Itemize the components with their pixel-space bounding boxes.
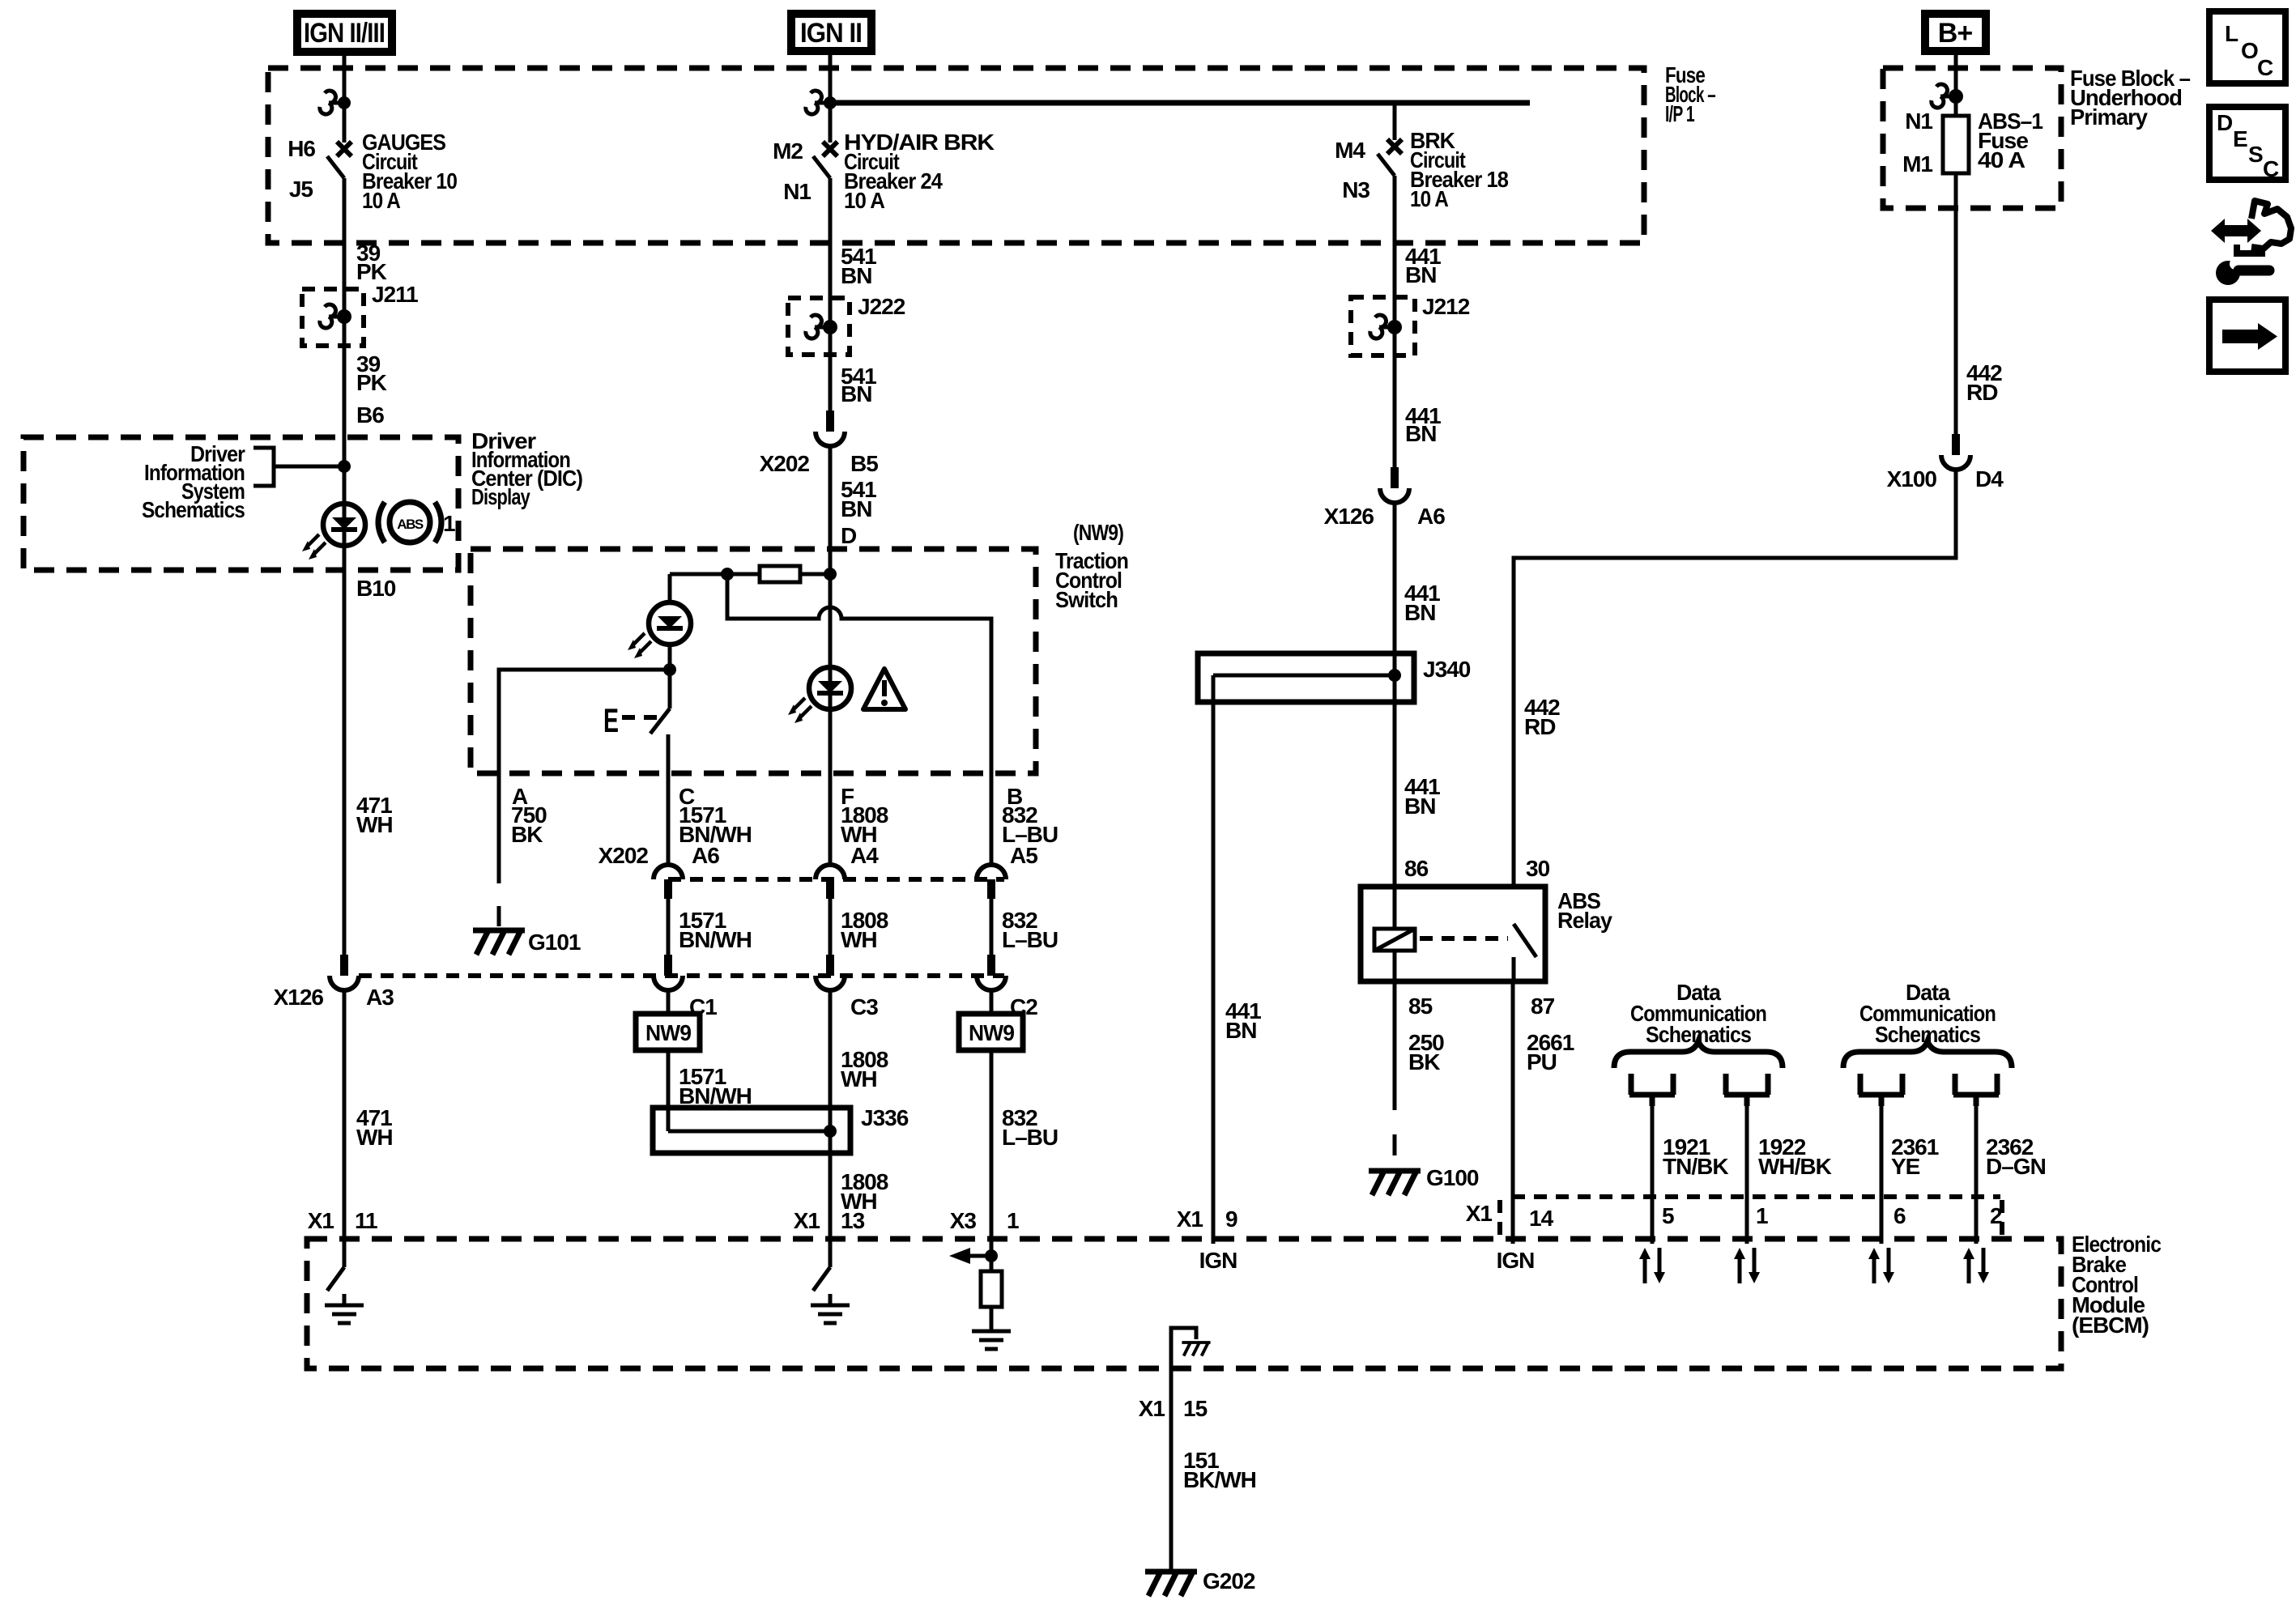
svg-text:WH: WH xyxy=(841,927,877,952)
svg-text:10 A: 10 A xyxy=(1410,186,1449,211)
svg-text:BN: BN xyxy=(1405,421,1436,446)
splice pack J336 xyxy=(653,1108,850,1153)
svg-text:L–BU: L–BU xyxy=(1002,927,1058,952)
switch to ground (EBCM X1-13) xyxy=(813,1267,830,1291)
connector X202 A4 xyxy=(816,865,845,899)
svg-text:6: 6 xyxy=(1893,1203,1906,1228)
svg-text:J211: J211 xyxy=(372,282,418,307)
svg-text:C: C xyxy=(2257,55,2273,80)
wire node to pin A xyxy=(499,670,670,773)
svg-text:85: 85 xyxy=(1408,994,1433,1019)
bus wire in fuse block xyxy=(830,100,1530,106)
relay coil xyxy=(1374,929,1415,951)
svg-text:B10: B10 xyxy=(356,576,396,601)
svg-text:N1: N1 xyxy=(1905,109,1932,134)
label (NW9) Traction Control Switch xyxy=(1055,520,1128,612)
label Fuse Block - I/P 1 xyxy=(1665,62,1715,126)
svg-text:X1: X1 xyxy=(1466,1201,1493,1226)
svg-text:I/P 1: I/P 1 xyxy=(1665,101,1694,126)
label Fuse Block - Underhood Primary xyxy=(2070,66,2190,130)
svg-text:Display: Display xyxy=(471,484,530,509)
data arrows pin 2 xyxy=(1963,1248,1989,1283)
wire fuse down to X100 xyxy=(1954,173,1958,434)
svg-text:NW9: NW9 xyxy=(969,1020,1014,1045)
svg-text:D: D xyxy=(2217,110,2233,135)
svg-text:X126: X126 xyxy=(274,985,324,1010)
svg-text:A4: A4 xyxy=(850,843,879,868)
svg-text:IGN II/III: IGN II/III xyxy=(304,18,385,49)
data arrows pin 1 xyxy=(1734,1248,1760,1283)
label Driver Information System Schematics xyxy=(142,441,245,522)
ground (EBCM internal, X1-13) xyxy=(811,1294,850,1323)
node right of resistor xyxy=(824,568,837,581)
node left of resistor xyxy=(721,568,734,581)
svg-text:X1: X1 xyxy=(1177,1206,1203,1232)
data arrows pin 5 xyxy=(1639,1248,1665,1283)
wire C1 to NW9 xyxy=(667,990,671,1014)
fuse ABS-1 40A N1/M1 xyxy=(1943,116,1969,173)
svg-text:G101: G101 xyxy=(528,930,581,955)
wire NW9 to J336 xyxy=(667,1050,671,1131)
svg-text:X126: X126 xyxy=(1324,504,1374,529)
svg-text:J340: J340 xyxy=(1423,657,1471,682)
ground G100 xyxy=(1369,1171,1421,1195)
wire A6 to J340 xyxy=(1393,503,1397,929)
circuit breaker 10 (GAUGES) H6/J5 xyxy=(327,142,351,178)
svg-text:N1: N1 xyxy=(783,179,811,204)
svg-text:D: D xyxy=(841,523,857,548)
svg-text:S: S xyxy=(2248,142,2263,167)
svg-text:10 A: 10 A xyxy=(844,188,885,213)
terminal fork pin 6 xyxy=(1859,1074,1904,1106)
svg-text:A3: A3 xyxy=(366,985,394,1010)
svg-text:M2: M2 xyxy=(773,138,803,164)
svg-text:E: E xyxy=(603,701,619,739)
svg-text:L–BU: L–BU xyxy=(1002,1125,1058,1150)
power label IGN II xyxy=(787,10,875,55)
connector C1 xyxy=(654,955,683,990)
connector X126 A6 xyxy=(1380,467,1409,503)
svg-text:WH/BK: WH/BK xyxy=(1758,1154,1832,1179)
ABS relay box xyxy=(1361,887,1545,981)
svg-text:BN: BN xyxy=(841,263,871,288)
icon arrow box xyxy=(2209,300,2285,372)
svg-text:1: 1 xyxy=(1756,1203,1768,1228)
svg-text:E: E xyxy=(2233,126,2247,151)
label Data Communication Schematics (2) xyxy=(1859,980,1996,1047)
svg-text:X100: X100 xyxy=(1887,466,1937,491)
svg-text:BK: BK xyxy=(1408,1049,1440,1074)
wire B5 to traction switch xyxy=(829,446,833,865)
terminal fork pin 2 xyxy=(1953,1074,1999,1106)
wire bracket to lamp node xyxy=(274,465,343,469)
svg-text:15: 15 xyxy=(1183,1396,1208,1421)
svg-text:X1: X1 xyxy=(308,1208,334,1233)
svg-text:J5: J5 xyxy=(289,177,313,202)
wire hop from resistor to pin B xyxy=(727,574,991,865)
resistor (EBCM internal) xyxy=(981,1271,1002,1307)
ground G202 xyxy=(1145,1572,1197,1596)
dashed wire to G100 xyxy=(1393,1089,1397,1160)
power label IGN II/III xyxy=(293,10,396,56)
harness NW9 (C2) xyxy=(959,1014,1023,1050)
power label B+ xyxy=(1921,10,1990,55)
connector row dashed line X126/C xyxy=(359,973,1004,978)
svg-text:X1: X1 xyxy=(1139,1396,1165,1421)
label Driver Information Center (DIC) Display xyxy=(471,428,582,509)
icon DESC box xyxy=(2209,107,2285,181)
circuit breaker 24 (HYD/AIR BRK) M2/N1 xyxy=(813,142,837,178)
svg-text:WH: WH xyxy=(841,1066,877,1091)
switch to ground (EBCM X1-11) xyxy=(327,1267,344,1291)
relay contact 30-87 xyxy=(1514,924,1536,957)
svg-text:C: C xyxy=(2263,156,2279,181)
icon LOC box xyxy=(2209,11,2285,83)
connector X100 D4 xyxy=(1941,434,1970,470)
svg-text:BN: BN xyxy=(1225,1018,1256,1043)
wire B+ to fuse xyxy=(1954,55,1958,116)
wire X100 down-left to relay 30 xyxy=(1514,470,1956,887)
wire NW9(C2) to EBCM X3-1 xyxy=(990,1050,994,1271)
svg-text:BK: BK xyxy=(511,822,543,847)
wire 1921 to EBCM pin 5 xyxy=(1651,1106,1655,1244)
svg-text:BN: BN xyxy=(1404,600,1435,625)
connector X202 A6 xyxy=(654,865,683,899)
svg-text:9: 9 xyxy=(1225,1206,1237,1232)
connector C2 xyxy=(977,955,1006,990)
svg-text:B6: B6 xyxy=(356,402,384,428)
wire 87 to EBCM X1-14 xyxy=(1511,981,1515,1244)
wire 2361 to EBCM pin 6 xyxy=(1880,1106,1884,1244)
wire C3 through J336 to EBCM xyxy=(829,990,833,1267)
node switch/lamp junction xyxy=(663,663,676,676)
svg-text:87: 87 xyxy=(1531,994,1555,1019)
svg-text:RD: RD xyxy=(1966,380,1998,405)
bracket to DIS schematics xyxy=(253,448,274,486)
svg-text:J212: J212 xyxy=(1422,294,1470,319)
splice curl at M2 feed xyxy=(806,91,830,114)
resistor (traction switch) xyxy=(670,572,831,577)
wire lamp to switch node xyxy=(668,645,672,670)
svg-text:BN: BN xyxy=(1405,262,1436,287)
EBCM dashed box xyxy=(307,1239,2061,1368)
icon wrench/arrows xyxy=(2211,201,2291,285)
label Data Communication Schematics (1) xyxy=(1630,980,1766,1047)
svg-text:M1: M1 xyxy=(1902,151,1932,177)
svg-text:ABS: ABS xyxy=(397,517,424,532)
svg-text:1: 1 xyxy=(1007,1208,1019,1233)
wire switch to pin C xyxy=(667,734,671,865)
splice curl at H6 feed xyxy=(320,91,344,114)
wire warn lamp to pin F xyxy=(829,709,833,865)
svg-text:J336: J336 xyxy=(861,1105,909,1130)
node junction on B6 wire xyxy=(338,460,351,473)
circuit breaker 18 (BRK) M4/N3 xyxy=(1378,139,1402,176)
svg-text:M4: M4 xyxy=(1335,138,1365,163)
svg-text:WH: WH xyxy=(356,1125,393,1150)
svg-text:IGN: IGN xyxy=(1497,1248,1535,1273)
svg-text:(EBCM): (EBCM) xyxy=(2072,1313,2149,1338)
wire 441 BN breaker M4 down xyxy=(1393,176,1397,467)
terminal fork pin 1 xyxy=(1724,1074,1770,1106)
brace (2) xyxy=(1843,1041,2012,1068)
wire node to switch contact xyxy=(668,670,672,709)
switch blade (traction switch) xyxy=(650,709,670,734)
svg-text:BN: BN xyxy=(841,496,871,521)
svg-text:O: O xyxy=(2241,38,2258,63)
svg-text:X3: X3 xyxy=(950,1208,977,1233)
svg-text:RD: RD xyxy=(1524,714,1556,739)
svg-text:BN/WH: BN/WH xyxy=(679,1083,752,1108)
wire 541 BN breaker M2 down xyxy=(829,178,833,413)
svg-text:1: 1 xyxy=(443,511,455,536)
wire IGN II/III to breaker H6 xyxy=(343,56,347,143)
traction control switch dashed box NW9 xyxy=(471,549,1036,773)
ground G101 xyxy=(473,930,525,955)
svg-text:BK/WH: BK/WH xyxy=(1183,1467,1256,1492)
ground (EBCM internal, X3-1) xyxy=(972,1320,1011,1349)
wire A6 to C1 xyxy=(667,899,671,955)
wire IGN II to bus xyxy=(829,55,833,143)
svg-text:30: 30 xyxy=(1526,856,1550,881)
svg-text:NW9: NW9 xyxy=(645,1020,691,1045)
connector row X202 dashed line xyxy=(668,877,1004,882)
svg-text:WH: WH xyxy=(356,812,393,837)
svg-text:Primary: Primary xyxy=(2070,104,2148,130)
wire 2362 to EBCM pin 2 xyxy=(1974,1106,1979,1244)
wire coil to 85 xyxy=(1393,951,1397,1089)
data arrows pin 6 xyxy=(1868,1248,1894,1283)
svg-text:A5: A5 xyxy=(1010,843,1037,868)
wire 471 WH (2nd) to EBCM xyxy=(343,990,347,1267)
wire J340 branch to EBCM X1-9 xyxy=(1212,675,1216,1244)
svg-text:Switch: Switch xyxy=(1055,587,1118,612)
wire 39 PK breaker to J211 xyxy=(343,178,347,955)
harness NW9 (C1) xyxy=(636,1014,700,1050)
wire X1-15 to G202 xyxy=(1169,1368,1174,1569)
svg-text:X202: X202 xyxy=(760,451,810,476)
warning lamp (traction switch) xyxy=(809,667,851,709)
warning triangle xyxy=(863,669,905,709)
svg-text:40 A: 40 A xyxy=(1978,147,2026,172)
svg-text:14: 14 xyxy=(1529,1206,1554,1231)
svg-text:BN: BN xyxy=(1404,794,1435,819)
svg-text:PK: PK xyxy=(356,259,387,284)
svg-text:X202: X202 xyxy=(598,843,649,868)
wire 1922 to EBCM pin 1 xyxy=(1745,1106,1749,1244)
svg-text:A6: A6 xyxy=(1417,504,1445,529)
ground (EBCM internal, X1-11) xyxy=(325,1294,364,1323)
EBCM connector notch dashed xyxy=(1512,1194,2000,1199)
svg-text:G202: G202 xyxy=(1203,1568,1255,1594)
svg-text:D–GN: D–GN xyxy=(1986,1154,2046,1179)
connector X126 A3 xyxy=(330,955,359,990)
splice J211 xyxy=(302,289,364,346)
svg-text:B5: B5 xyxy=(850,451,878,476)
svg-text:B+: B+ xyxy=(1938,18,1973,49)
svg-text:J222: J222 xyxy=(858,294,905,319)
indicator lamp ABS (DIC) xyxy=(323,504,365,546)
relay coil-contact dashed link xyxy=(1420,936,1508,941)
wire pin A to G101 xyxy=(497,773,501,854)
svg-text:86: 86 xyxy=(1404,856,1429,881)
connector X202 A5 xyxy=(977,865,1006,899)
svg-text:BN/WH: BN/WH xyxy=(679,927,752,952)
splice J212 xyxy=(1351,297,1415,355)
svg-text:C3: C3 xyxy=(850,994,878,1019)
svg-text:IGN II: IGN II xyxy=(800,18,862,49)
svg-text:11: 11 xyxy=(355,1208,377,1233)
svg-text:Relay: Relay xyxy=(1557,908,1612,933)
svg-text:Schematics: Schematics xyxy=(142,497,245,522)
svg-text:13: 13 xyxy=(841,1208,865,1233)
splice J222 xyxy=(788,298,850,355)
svg-text:IGN: IGN xyxy=(1199,1248,1237,1273)
wire bus to breaker M4 xyxy=(1393,103,1397,140)
svg-text:(NW9): (NW9) xyxy=(1073,520,1123,545)
svg-text:BN: BN xyxy=(841,381,871,406)
fuse block underhood dashed box xyxy=(1883,68,2061,208)
fuse block I/P dashed box xyxy=(268,68,1644,243)
DIC display dashed box xyxy=(23,437,458,570)
ground hook (EBCM internal) xyxy=(1171,1328,1196,1368)
splice curl at fuse feed xyxy=(1932,84,1956,108)
svg-text:X1: X1 xyxy=(794,1208,820,1233)
connector C3 xyxy=(816,955,845,990)
connector X202 B5 xyxy=(816,411,845,446)
svg-text:PK: PK xyxy=(356,370,387,395)
brace (1) xyxy=(1614,1041,1783,1068)
svg-text:L: L xyxy=(2225,21,2238,46)
svg-text:N3: N3 xyxy=(1342,177,1370,202)
svg-text:10 A: 10 A xyxy=(362,188,401,213)
svg-text:A6: A6 xyxy=(692,843,719,868)
wire A5 to C2 xyxy=(990,899,994,955)
label Electronic Brake Control Module (EBCM) xyxy=(2072,1232,2161,1338)
wire resistor to indicator lamp xyxy=(668,574,672,602)
wire A4 to C3 xyxy=(829,899,833,955)
svg-text:5: 5 xyxy=(1662,1203,1674,1228)
wire C2 to NW9 xyxy=(990,990,994,1014)
svg-text:TN/BK: TN/BK xyxy=(1663,1154,1728,1179)
svg-text:YE: YE xyxy=(1891,1154,1920,1179)
svg-text:D4: D4 xyxy=(1975,466,2004,491)
svg-text:PU: PU xyxy=(1527,1049,1557,1074)
ABS warning symbol ((ABS))1 xyxy=(378,502,455,543)
indicator lamp (traction switch) xyxy=(649,602,691,645)
svg-text:H6: H6 xyxy=(288,136,315,161)
terminal fork pin 5 xyxy=(1629,1074,1675,1106)
splice pack J340 xyxy=(1198,653,1414,702)
svg-text:G100: G100 xyxy=(1426,1165,1479,1190)
node and arrow (EBCM X3-1) xyxy=(985,1249,998,1262)
